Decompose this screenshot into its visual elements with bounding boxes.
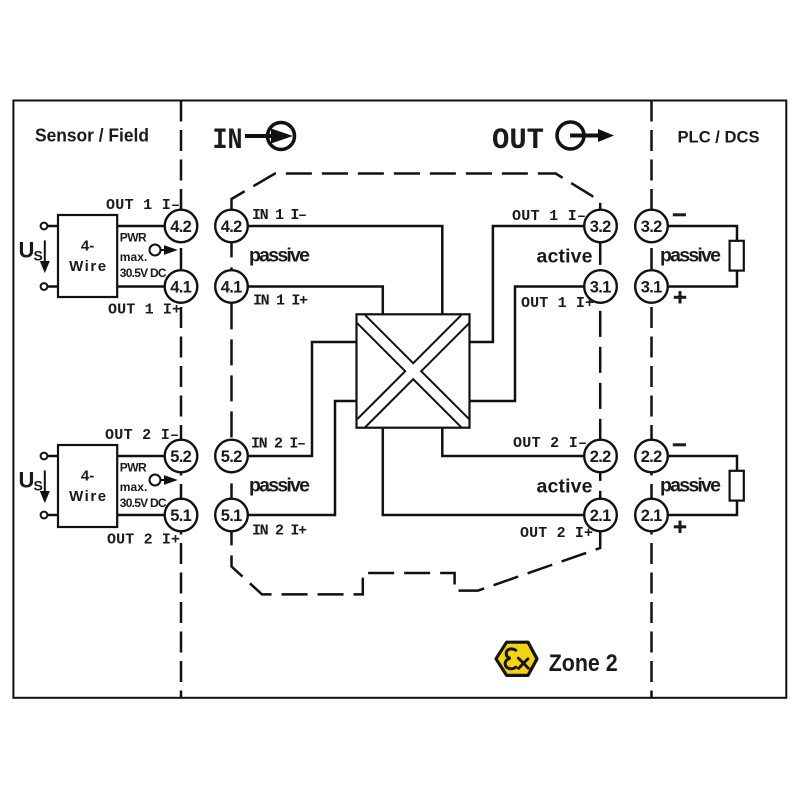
svg-text:4.2: 4.2	[221, 218, 243, 236]
svg-text:passive: passive	[249, 245, 310, 267]
svg-text:OUT 2 I+: OUT 2 I+	[520, 525, 593, 542]
svg-text:5.1: 5.1	[170, 507, 192, 525]
svg-text:Wire: Wire	[69, 488, 106, 505]
svg-text:IN 2 I+: IN 2 I+	[252, 523, 307, 540]
svg-text:IN 1 I+: IN 1 I+	[253, 293, 308, 310]
svg-text:IN 2 I–: IN 2 I–	[251, 436, 306, 453]
svg-text:OUT 1 I–: OUT 1 I–	[106, 197, 180, 214]
svg-text:3.1: 3.1	[641, 279, 663, 297]
svg-text:max.: max.	[120, 480, 148, 494]
svg-text:U: U	[19, 467, 35, 492]
svg-text:Zone 2: Zone 2	[549, 650, 618, 677]
svg-text:3.1: 3.1	[590, 279, 612, 297]
svg-text:OUT 1 I+: OUT 1 I+	[108, 302, 181, 319]
svg-text:active: active	[537, 476, 593, 498]
svg-text:3.2: 3.2	[590, 218, 612, 236]
svg-text:4.1: 4.1	[221, 279, 243, 297]
svg-text:2.1: 2.1	[641, 507, 663, 525]
svg-text:OUT 2 I–: OUT 2 I–	[105, 427, 179, 444]
svg-text:IN: IN	[213, 124, 243, 158]
svg-text:PWR: PWR	[120, 231, 147, 245]
svg-text:4-: 4-	[81, 467, 94, 484]
svg-text:5.2: 5.2	[170, 448, 192, 466]
svg-text:OUT 1 I–: OUT 1 I–	[512, 208, 586, 225]
svg-text:4-: 4-	[81, 237, 94, 254]
svg-text:max.: max.	[120, 250, 148, 264]
svg-text:Sensor / Field: Sensor / Field	[35, 126, 149, 146]
svg-text:2.1: 2.1	[590, 507, 612, 525]
svg-text:PWR: PWR	[120, 461, 147, 475]
svg-text:passive: passive	[660, 245, 721, 267]
svg-text:S: S	[34, 477, 43, 493]
svg-text:OUT 2 I–: OUT 2 I–	[513, 435, 587, 452]
svg-text:PLC / DCS: PLC / DCS	[678, 128, 760, 147]
svg-text:passive: passive	[660, 475, 721, 497]
svg-text:30.5V DC: 30.5V DC	[120, 266, 167, 280]
svg-text:OUT: OUT	[492, 124, 544, 158]
svg-text:2.2: 2.2	[590, 448, 612, 466]
svg-text:passive: passive	[249, 475, 310, 497]
svg-text:3.2: 3.2	[641, 218, 663, 236]
svg-text:U: U	[19, 237, 35, 262]
svg-text:OUT 2 I+: OUT 2 I+	[107, 532, 180, 549]
svg-text:4.1: 4.1	[170, 279, 192, 297]
svg-text:active: active	[537, 246, 593, 268]
svg-text:30.5V DC: 30.5V DC	[120, 496, 167, 510]
svg-text:4.2: 4.2	[170, 218, 192, 236]
svg-text:5.1: 5.1	[221, 507, 243, 525]
svg-text:Wire: Wire	[69, 258, 106, 275]
svg-text:IN 1 I–: IN 1 I–	[252, 207, 307, 224]
svg-text:5.2: 5.2	[221, 448, 243, 466]
svg-text:2.2: 2.2	[641, 448, 663, 466]
svg-text:S: S	[34, 247, 43, 263]
svg-text:OUT 1 I+: OUT 1 I+	[521, 295, 594, 312]
